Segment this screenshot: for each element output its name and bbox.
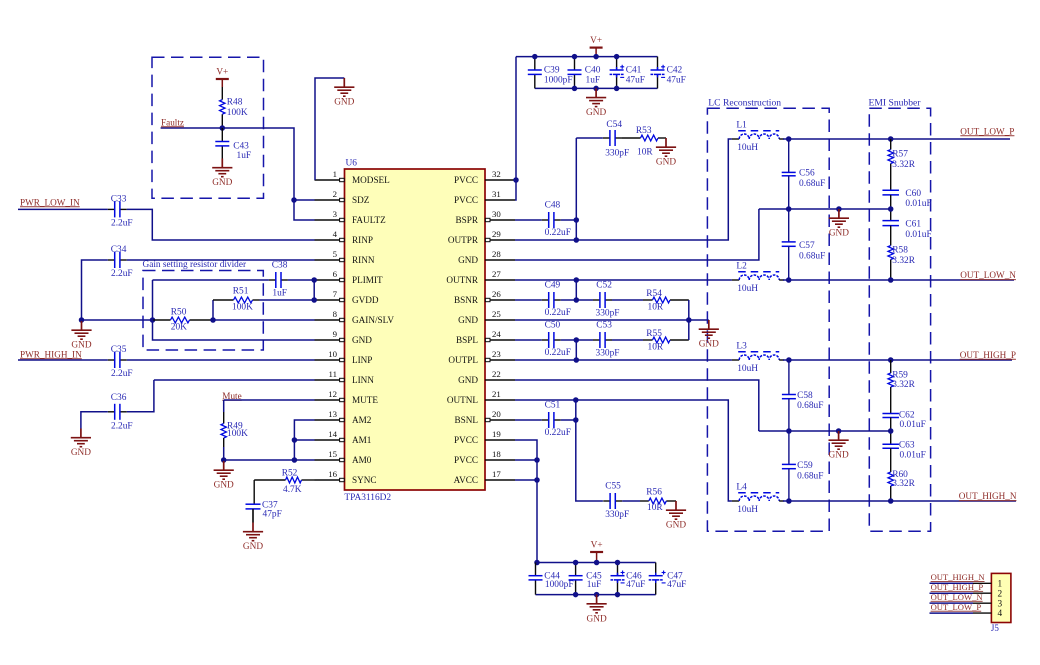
svg-text:PVCC: PVCC	[454, 455, 478, 465]
wire AVCC pin17	[515, 479, 537, 481]
wire OUTPR vertical	[575, 138, 577, 240]
junction OUTNL tap	[573, 397, 579, 403]
svg-text:BSPL: BSPL	[456, 335, 478, 345]
svg-text:32: 32	[492, 169, 501, 179]
wire BSPL pin24	[515, 339, 542, 341]
svg-text:27: 27	[492, 269, 501, 279]
dashed box Gain setting resistor divider	[143, 260, 264, 350]
svg-text:GND: GND	[352, 335, 372, 345]
junction OUTNR tap	[574, 277, 580, 283]
svg-text:C35: C35	[111, 345, 127, 355]
junction C48/OUTPR	[574, 217, 580, 223]
svg-text:OUT_HIGH_P: OUT_HIGH_P	[960, 350, 1016, 360]
node PWR_LOW_IN	[20, 197, 80, 207]
svg-text:25: 25	[492, 309, 501, 319]
svg-text:C36: C36	[111, 393, 127, 403]
wire R52 to C37	[253, 480, 255, 504]
pin lead	[973, 592, 991, 594]
junction R49/GND/AM0	[221, 457, 227, 463]
wire L3 lead	[732, 359, 739, 361]
svg-text:LINP: LINP	[352, 355, 372, 365]
svg-text:15: 15	[328, 449, 337, 459]
wire net OUT_LOW_P	[783, 138, 1010, 140]
wire L4 lead	[732, 500, 739, 502]
junction C62/C63 mid	[888, 428, 894, 434]
wire BSNR pin26	[515, 299, 542, 301]
svg-text:3: 3	[998, 599, 1003, 609]
junction GND rail	[79, 317, 85, 323]
svg-text:OUT_HIGH_N: OUT_HIGH_N	[931, 572, 986, 582]
wire C57 top lead	[788, 209, 790, 242]
capacitor C36	[108, 393, 133, 432]
svg-text:AM1: AM1	[352, 435, 372, 445]
svg-text:28: 28	[492, 249, 501, 259]
svg-text:RINP: RINP	[352, 235, 373, 245]
wire BSPR pin30	[515, 219, 542, 221]
svg-text:3.32R: 3.32R	[892, 479, 915, 489]
junction GND stem upper	[836, 206, 842, 212]
wire J5 pin3	[930, 602, 974, 604]
svg-text:4: 4	[333, 229, 338, 239]
svg-text:GND: GND	[458, 255, 478, 265]
wire net PWR_LOW_IN	[18, 208, 108, 210]
capacitor C46	[611, 563, 646, 595]
svg-text:R52: R52	[282, 469, 298, 479]
wire L2 lead	[732, 279, 739, 281]
svg-text:U6: U6	[346, 159, 358, 169]
capacitor C40	[568, 57, 601, 89]
svg-text:7: 7	[333, 289, 338, 299]
resistor R57	[888, 139, 916, 190]
svg-text:GND: GND	[587, 614, 607, 624]
svg-text:16: 16	[328, 469, 337, 479]
svg-text:100K: 100K	[227, 429, 248, 439]
svg-text:MUTE: MUTE	[352, 395, 378, 405]
junction AM rail	[292, 457, 298, 463]
svg-text:GND: GND	[656, 158, 676, 168]
svg-text:C40: C40	[585, 66, 601, 76]
junction pin17	[534, 477, 540, 483]
svg-text:C61: C61	[905, 220, 921, 230]
svg-text:C53: C53	[596, 320, 612, 330]
capacitor C34	[108, 245, 133, 279]
svg-text:C63: C63	[899, 441, 915, 451]
svg-text:R55: R55	[646, 329, 662, 339]
wire C57 bottom lead	[788, 246, 790, 280]
svg-text:3.32R: 3.32R	[892, 256, 915, 266]
wire PVCC pin19 down to V+ rail	[515, 440, 537, 563]
svg-text:LINN: LINN	[352, 375, 374, 385]
svg-text:OUT_LOW_P: OUT_LOW_P	[931, 602, 982, 612]
wire to OUTNR net	[575, 280, 577, 300]
junction V+ rail	[614, 54, 620, 60]
wire GND bottom rail	[535, 87, 658, 89]
svg-text:47uF: 47uF	[626, 76, 645, 86]
svg-text:AM2: AM2	[352, 415, 372, 425]
wire C37 to GND	[252, 509, 254, 523]
capacitor C62	[882, 411, 925, 430]
svg-text:R54: R54	[646, 289, 662, 299]
svg-text:OUTNL: OUTNL	[447, 395, 479, 405]
svg-text:0.01uF: 0.01uF	[900, 450, 926, 460]
svg-text:0.22uF: 0.22uF	[545, 348, 571, 358]
svg-text:330pF: 330pF	[596, 309, 620, 319]
power V+	[216, 68, 229, 88]
wire PLIMIT to GVDD vertical	[313, 280, 315, 300]
ground	[829, 209, 849, 239]
wire R54 to GND rail	[688, 300, 690, 320]
wire net Faultz	[161, 128, 315, 220]
resistor R58	[888, 226, 916, 280]
resistor R54	[643, 289, 689, 313]
svg-text:C52: C52	[596, 280, 612, 290]
svg-text:4.7K: 4.7K	[283, 485, 302, 495]
svg-text:2.2uF: 2.2uF	[111, 219, 133, 229]
svg-text:R58: R58	[892, 246, 908, 256]
svg-text:OUT_LOW_N: OUT_LOW_N	[960, 270, 1016, 280]
wire to AM1 pin14	[294, 439, 314, 441]
svg-text:GND: GND	[71, 448, 91, 458]
wire BSNL pin20	[515, 419, 542, 421]
capacitor C33	[108, 194, 133, 228]
svg-text:GND: GND	[586, 108, 606, 118]
svg-text:FAULTZ: FAULTZ	[352, 215, 386, 225]
op-amp U6 TPA3116D2 class-D amplifier IC	[315, 159, 516, 503]
svg-text:C41: C41	[626, 66, 642, 76]
wire C34 to RINN pin5	[127, 259, 315, 261]
junction pin18	[534, 457, 540, 463]
svg-text:2: 2	[333, 189, 337, 199]
ground	[587, 595, 607, 625]
wire C53 to R55	[612, 339, 643, 341]
wire LINN to C36	[127, 380, 154, 412]
svg-text:R57: R57	[892, 150, 908, 160]
wire Mute down to R49	[223, 400, 225, 412]
wire C52 to R54	[612, 299, 643, 301]
ground	[243, 523, 263, 553]
capacitor C63	[882, 431, 925, 460]
svg-text:330pF: 330pF	[596, 349, 620, 359]
svg-text:24: 24	[492, 329, 501, 339]
wire to C52	[576, 299, 593, 301]
svg-text:BSPR: BSPR	[456, 215, 479, 225]
junction GND rail bottom	[594, 592, 600, 598]
wire R51 to GVDD pin7	[260, 299, 315, 301]
node Mute	[222, 391, 241, 401]
junction C50/OUTPL	[574, 337, 580, 343]
power V+	[590, 36, 603, 57]
ground	[586, 88, 606, 118]
wire C62 to mid node	[890, 418, 892, 432]
wire PVCC pins to V+ rail	[515, 57, 516, 200]
junction R57	[888, 136, 894, 142]
svg-text:R51: R51	[233, 287, 249, 297]
junction GND rail	[572, 86, 578, 92]
junction L1/C56	[786, 136, 792, 142]
capacitor C61	[882, 209, 931, 240]
svg-text:47uF: 47uF	[667, 580, 686, 590]
svg-text:V+: V+	[590, 36, 602, 46]
svg-text:PVCC: PVCC	[454, 435, 478, 445]
wire C36 to GND	[81, 412, 108, 429]
resistor R49	[221, 412, 248, 447]
junction GND rail bottom	[573, 592, 579, 598]
svg-text:1uF: 1uF	[237, 151, 252, 161]
junction PVCC pin32	[513, 177, 519, 183]
svg-text:100K: 100K	[227, 108, 248, 118]
node OUT_HIGH_N	[931, 572, 986, 582]
ground	[71, 429, 91, 459]
svg-text:6: 6	[333, 269, 338, 279]
wire C50 out	[561, 339, 577, 341]
capacitor C55	[603, 482, 629, 521]
svg-text:10uH: 10uH	[737, 505, 758, 515]
svg-text:GND: GND	[458, 315, 478, 325]
svg-text:1uF: 1uF	[586, 76, 601, 86]
svg-text:11: 11	[329, 369, 337, 379]
svg-text:13: 13	[328, 409, 337, 419]
wire OUTPL pin23 to L3	[515, 359, 732, 361]
junction R54/R55/GND	[686, 317, 692, 323]
capacitor C58	[782, 391, 824, 411]
junction R50 right	[210, 317, 216, 323]
svg-text:100K: 100K	[232, 302, 253, 312]
capacitor C44	[529, 563, 574, 595]
node Faultz	[161, 117, 184, 127]
svg-text:GND: GND	[212, 178, 232, 188]
svg-text:14: 14	[328, 429, 337, 439]
capacitor C37	[246, 500, 282, 522]
wire C50 to OUTPL net	[575, 340, 577, 360]
junction OUTPL tap	[574, 357, 580, 363]
junction Faultz/SDZ	[291, 197, 297, 203]
svg-text:C39: C39	[544, 66, 560, 76]
svg-text:PWR_LOW_IN: PWR_LOW_IN	[20, 197, 80, 207]
wire J5 pin4	[930, 612, 974, 614]
junction R60	[888, 498, 894, 504]
wire C55 to R56	[622, 500, 640, 502]
svg-text:5: 5	[333, 249, 338, 259]
wire net OUT_LOW_N	[783, 279, 1014, 281]
svg-text:L2: L2	[736, 262, 747, 272]
capacitor C41	[610, 57, 645, 89]
svg-text:22: 22	[492, 369, 501, 379]
svg-text:1uF: 1uF	[587, 580, 602, 590]
svg-text:AVCC: AVCC	[454, 475, 478, 485]
inductor L4	[736, 483, 779, 516]
pin lead	[973, 582, 991, 584]
capacitor C49	[542, 280, 571, 318]
wire Faultz to SDZ pin2	[294, 199, 315, 201]
svg-text:AM0: AM0	[352, 455, 372, 465]
svg-text:10uH: 10uH	[737, 364, 758, 374]
svg-text:0.68uF: 0.68uF	[797, 471, 823, 481]
svg-text:MODSEL: MODSEL	[352, 175, 390, 185]
svg-text:C34: C34	[111, 245, 127, 255]
wire R55 to GND rail	[688, 320, 690, 340]
wire mid GND node lower	[759, 430, 891, 432]
node OUT_LOW_N	[931, 592, 984, 602]
svg-text:4: 4	[998, 609, 1003, 619]
svg-text:2.2uF: 2.2uF	[111, 369, 133, 379]
junction PLIMIT	[311, 277, 317, 283]
svg-text:2.2uF: 2.2uF	[111, 269, 133, 279]
svg-text:3: 3	[333, 209, 338, 219]
junction V+ rail bottom	[615, 560, 621, 566]
wire OUTNR pin27 to L2	[515, 279, 732, 281]
svg-text:GND: GND	[699, 340, 719, 350]
wire net PWR_HIGH_IN	[18, 359, 108, 361]
wire to C53	[576, 339, 593, 341]
svg-text:10: 10	[328, 349, 337, 359]
junction GND rail	[593, 86, 599, 92]
wire mid GND node upper	[759, 208, 891, 210]
svg-text:10uH: 10uH	[737, 143, 758, 153]
wire OUTNL vertical to C55	[576, 400, 603, 501]
capacitor C43	[215, 128, 251, 161]
inductor L3	[736, 342, 779, 375]
junction GVDD	[311, 297, 317, 303]
svg-text:BSNR: BSNR	[454, 295, 479, 305]
svg-text:23: 23	[492, 349, 501, 359]
svg-text:OUT_HIGH_P: OUT_HIGH_P	[931, 582, 984, 592]
svg-text:C57: C57	[799, 241, 815, 251]
svg-text:18: 18	[492, 449, 501, 459]
svg-text:L4: L4	[736, 483, 747, 493]
svg-text:C50: C50	[545, 320, 561, 330]
junction C51/OUTNL	[573, 417, 579, 423]
wire OUTNL pin21 to L4	[515, 400, 732, 501]
svg-text:47uF: 47uF	[626, 580, 645, 590]
ground	[829, 431, 849, 461]
svg-text:GND: GND	[666, 521, 686, 531]
svg-text:BSNL: BSNL	[455, 415, 479, 425]
capacitor C57	[782, 241, 826, 261]
svg-text:SDZ: SDZ	[352, 195, 370, 205]
capacitor C56	[782, 169, 826, 189]
wire GND rail to R50	[82, 319, 153, 321]
ground	[334, 78, 354, 108]
svg-text:47pF: 47pF	[263, 510, 282, 520]
wire C34 to GND rail	[82, 260, 108, 320]
capacitor C35	[108, 345, 133, 379]
junction GND stem lower	[836, 428, 842, 434]
svg-text:21: 21	[492, 389, 501, 399]
svg-text:0.01uF: 0.01uF	[905, 199, 931, 209]
svg-text:PWR_HIGH_IN: PWR_HIGH_IN	[20, 349, 82, 359]
wire net OUT_HIGH_N	[783, 500, 1016, 502]
junction OUTPR	[574, 237, 580, 243]
pin lead	[973, 602, 991, 604]
node OUT_HIGH_N	[959, 491, 1017, 501]
wire gain divider top	[153, 279, 269, 281]
wire C56 top lead	[788, 139, 790, 172]
svg-text:R50: R50	[171, 307, 187, 317]
svg-text:20K: 20K	[171, 322, 187, 332]
svg-text:C55: C55	[605, 482, 621, 492]
resistor R55	[643, 329, 689, 353]
svg-text:GVDD: GVDD	[352, 295, 379, 305]
resistor R50	[153, 307, 214, 332]
svg-text:EMI Snubber: EMI Snubber	[869, 97, 922, 108]
ground	[71, 321, 91, 351]
inductor L2	[736, 262, 779, 295]
junction V+ rail	[572, 54, 578, 60]
svg-text:PVCC: PVCC	[454, 175, 478, 185]
wire to AM2 pin13	[294, 420, 314, 460]
wire to GAIN/SLV pin8	[213, 319, 315, 321]
wire C51 out	[561, 419, 576, 421]
svg-text:R48: R48	[227, 98, 243, 108]
wire divider to GND pin9	[153, 280, 315, 340]
svg-text:47uF: 47uF	[667, 76, 686, 86]
svg-text:C59: C59	[797, 461, 813, 471]
dashed box EMI Snubber	[869, 97, 931, 531]
svg-text:0.22uF: 0.22uF	[545, 228, 571, 238]
svg-text:OUTPL: OUTPL	[448, 355, 478, 365]
wire V+ top rail	[516, 56, 658, 58]
svg-text:TPA3116D2: TPA3116D2	[344, 493, 391, 503]
svg-text:J5: J5	[991, 623, 1000, 633]
wire L3 out	[779, 359, 784, 361]
junction GND rail bottom	[615, 592, 621, 598]
svg-text:10R: 10R	[647, 503, 663, 513]
svg-text:0.22uF: 0.22uF	[545, 308, 571, 318]
capacitor C60	[882, 189, 931, 209]
ground	[699, 320, 719, 350]
svg-text:1000pF: 1000pF	[545, 580, 574, 590]
capacitor C48	[542, 200, 571, 238]
pin lead	[973, 612, 991, 614]
dashed box Faultz filter	[152, 57, 264, 198]
resistor R60	[888, 448, 916, 501]
wire C35 to LINP pin10	[127, 359, 315, 361]
svg-text:330pF: 330pF	[605, 510, 629, 520]
wire C33 to RINP pin4	[127, 209, 315, 240]
ground	[212, 159, 232, 189]
svg-text:C42: C42	[667, 66, 683, 76]
svg-text:R53: R53	[636, 126, 652, 136]
svg-text:C48: C48	[545, 200, 561, 210]
svg-text:C38: C38	[272, 260, 288, 270]
wire net OUT_HIGH_P	[783, 359, 1012, 361]
svg-text:GND: GND	[829, 229, 849, 239]
wire C59 bottom lead	[788, 469, 790, 501]
wire AM0 pin15 rail	[224, 459, 315, 461]
svg-text:20: 20	[492, 409, 501, 419]
svg-text:GND: GND	[214, 481, 234, 491]
svg-text:OUTPR: OUTPR	[448, 235, 479, 245]
svg-text:C54: C54	[606, 120, 622, 130]
svg-text:29: 29	[492, 229, 501, 239]
wire C49 out	[561, 299, 577, 301]
svg-text:LC Reconstruction: LC Reconstruction	[708, 97, 781, 108]
wire bottom GND rail	[536, 594, 656, 596]
capacitor C59	[782, 461, 824, 481]
svg-text:0.22uF: 0.22uF	[545, 428, 571, 438]
svg-text:Faultz: Faultz	[161, 117, 184, 127]
connector J5	[991, 573, 1011, 633]
inductor L1	[736, 121, 779, 154]
wire GND pin25 rail	[515, 319, 709, 321]
svg-text:2.2uF: 2.2uF	[111, 422, 133, 432]
svg-text:GND: GND	[829, 451, 849, 461]
junction rail feed	[534, 560, 540, 566]
junction C60/C61 mid	[888, 206, 894, 212]
svg-text:L3: L3	[736, 342, 747, 352]
junction R50 left	[150, 317, 156, 323]
svg-text:1uF: 1uF	[272, 289, 287, 299]
